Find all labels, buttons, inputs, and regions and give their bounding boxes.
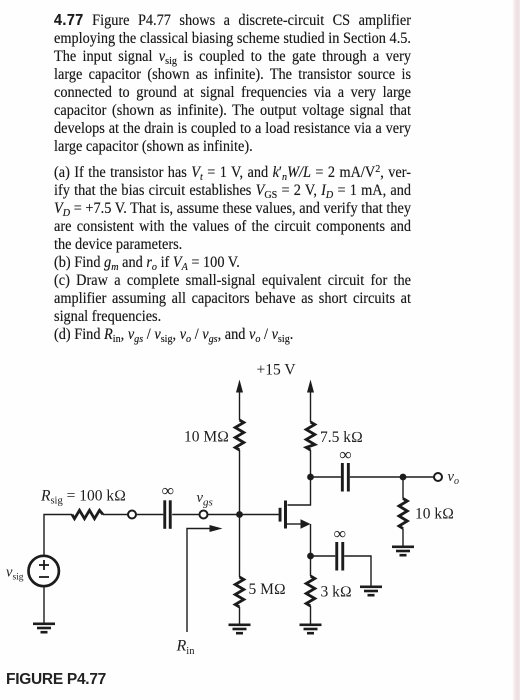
- transistor Q1 NMOS: [279, 501, 311, 557]
- wire: drain node to output coupling capacitor: [311, 476, 341, 478]
- problem text block: [54, 12, 411, 344]
- svg-text:∞: ∞: [162, 481, 174, 500]
- page edge pink strip: [512, 0, 520, 700]
- ground below RS: [300, 624, 322, 635]
- capacitor CC1 (infinite): [163, 500, 171, 529]
- resistor Rsig 100 kOhm: [72, 510, 103, 518]
- node drain junction: [307, 474, 314, 481]
- capacitor CS (infinite): [335, 542, 344, 571]
- svg-text:10 kΩ: 10 kΩ: [415, 506, 454, 523]
- ground below vsig: [33, 623, 55, 634]
- resistor RL 10 kOhm: [399, 499, 407, 529]
- wire: drain node down to transistor drain: [288, 477, 311, 505]
- wire: vgs terminal to gate: [207, 514, 278, 516]
- channel bar: [284, 501, 287, 529]
- wire: vsig to input line: [44, 515, 72, 556]
- ground below CS: [360, 586, 382, 597]
- terminal vo open circle: [434, 473, 442, 481]
- wire: output node down to RL: [402, 477, 404, 499]
- capacitor CC2 (infinite): [341, 463, 350, 492]
- wire: CC1 to vgs terminal: [172, 514, 200, 516]
- wire: source node down to RS: [310, 556, 312, 576]
- gate bar: [279, 508, 282, 522]
- svg-text:vgs: vgs: [197, 490, 213, 508]
- resistor RD 7.5 kOhm: [306, 422, 315, 450]
- Rin arrow: [187, 525, 223, 632]
- wire: left rail from gate node down to RG2: [239, 515, 241, 578]
- ground below RL: [392, 546, 414, 557]
- wire: bypass capacitor to ground: [344, 556, 371, 586]
- wire: right supply arrow to VDD: [307, 380, 314, 423]
- node gate junction: [236, 511, 243, 518]
- svg-text:5 MΩ: 5 MΩ: [249, 581, 286, 598]
- resistor RS 3 kOhm: [306, 576, 315, 606]
- node output junction: [400, 474, 407, 481]
- node source junction: [307, 553, 314, 560]
- svg-text:Rsig = 100 kΩ: Rsig = 100 kΩ: [40, 488, 126, 507]
- wire: RS to ground: [310, 606, 312, 624]
- wire: left rail from RG1 down to gate node: [239, 450, 241, 515]
- svg-text:3 kΩ: 3 kΩ: [321, 584, 352, 601]
- source vsig: [29, 556, 59, 586]
- wire: capacitor CC2 to output node: [350, 476, 434, 478]
- svg-text:7.5 kΩ: 7.5 kΩ: [320, 429, 363, 446]
- wire: RL to ground: [402, 529, 404, 546]
- terminal vgs open circle: [200, 511, 208, 519]
- svg-text:vsig: vsig: [6, 565, 24, 583]
- ground below RG2: [229, 624, 251, 635]
- resistor RG2 5 MOhm: [235, 577, 244, 607]
- wire: vsig to ground: [43, 587, 45, 624]
- svg-text:10 MΩ: 10 MΩ: [184, 429, 229, 446]
- wire: terminal to CC1: [136, 514, 164, 516]
- wire: right rail from RD down to drain node: [310, 450, 312, 477]
- wire: Rsig to terminal: [103, 514, 128, 516]
- wire: left supply arrow to VDD: [236, 380, 243, 421]
- wire: RG2 to ground: [239, 607, 241, 624]
- svg-text:∞: ∞: [334, 524, 346, 543]
- resistor RG1 10 MOhm: [235, 420, 244, 450]
- wire: source node to bypass capacitor: [311, 555, 336, 557]
- svg-text:∞: ∞: [339, 445, 351, 464]
- terminal open circle left of CC1: [128, 511, 136, 519]
- svg-text:+15 V: +15 V: [256, 362, 296, 379]
- source lead with arrow: [287, 523, 302, 525]
- figure caption: [6, 671, 106, 689]
- svg-text:Rin: Rin: [176, 638, 196, 658]
- svg-text:vo: vo: [448, 469, 459, 487]
